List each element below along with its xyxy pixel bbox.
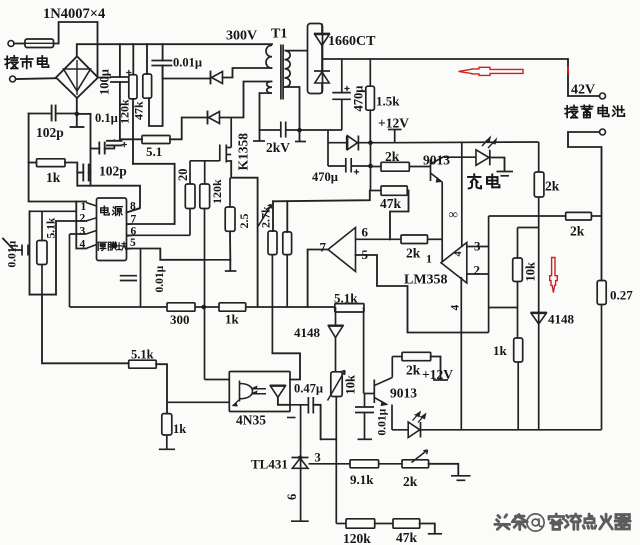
svg-text:120k: 120k bbox=[343, 531, 371, 545]
svg-text:1k: 1k bbox=[46, 170, 61, 185]
svg-text:+12V: +12V bbox=[422, 367, 453, 382]
svg-text:5.1k: 5.1k bbox=[131, 348, 154, 362]
svg-text:8: 8 bbox=[130, 201, 136, 213]
svg-text:470µ: 470µ bbox=[352, 86, 366, 112]
svg-text:6: 6 bbox=[131, 226, 137, 238]
svg-text:0.1µ: 0.1µ bbox=[95, 111, 118, 125]
svg-text:5.1k: 5.1k bbox=[46, 217, 58, 238]
svg-text:0.01µ: 0.01µ bbox=[377, 408, 389, 435]
svg-text:3: 3 bbox=[80, 226, 86, 238]
svg-text:42V: 42V bbox=[571, 83, 595, 98]
svg-text:5.1: 5.1 bbox=[146, 144, 162, 159]
svg-text:6: 6 bbox=[362, 225, 369, 240]
svg-text:2kV: 2kV bbox=[266, 140, 290, 155]
svg-text:47k: 47k bbox=[132, 101, 146, 120]
svg-text:2k: 2k bbox=[385, 149, 400, 164]
svg-text:3: 3 bbox=[315, 451, 321, 465]
svg-text:5: 5 bbox=[130, 237, 136, 249]
svg-text:20: 20 bbox=[176, 169, 190, 182]
svg-text:5.1k: 5.1k bbox=[334, 291, 358, 306]
svg-text:4N35: 4N35 bbox=[236, 413, 266, 428]
svg-text:47k: 47k bbox=[396, 530, 418, 545]
svg-text:2: 2 bbox=[80, 213, 86, 225]
svg-text:100µ: 100µ bbox=[98, 69, 112, 95]
svg-text:+12V: +12V bbox=[378, 116, 409, 131]
svg-text:2.5: 2.5 bbox=[237, 214, 251, 229]
svg-text:1k: 1k bbox=[173, 422, 186, 436]
svg-text:1k: 1k bbox=[493, 343, 508, 358]
svg-text:4: 4 bbox=[80, 239, 86, 251]
svg-text:2k: 2k bbox=[570, 224, 585, 239]
svg-text:6: 6 bbox=[285, 494, 299, 500]
svg-text:∞: ∞ bbox=[449, 207, 458, 222]
svg-text:T1: T1 bbox=[271, 27, 287, 42]
svg-text:3: 3 bbox=[474, 239, 481, 254]
svg-text:0.27: 0.27 bbox=[610, 288, 633, 303]
svg-text:102p: 102p bbox=[99, 164, 127, 179]
svg-text:2.7k: 2.7k bbox=[259, 206, 273, 228]
svg-text:9013: 9013 bbox=[390, 386, 417, 401]
svg-text:0.01µ: 0.01µ bbox=[173, 56, 202, 70]
svg-text:470µ: 470µ bbox=[312, 170, 338, 184]
svg-text:10k: 10k bbox=[524, 262, 538, 282]
svg-text:4: 4 bbox=[453, 251, 464, 257]
svg-text:47k: 47k bbox=[380, 196, 402, 211]
svg-text:1N4007×4: 1N4007×4 bbox=[43, 6, 105, 22]
svg-text:2k: 2k bbox=[403, 474, 418, 489]
svg-text:1660CT: 1660CT bbox=[328, 34, 376, 49]
svg-text:9013: 9013 bbox=[423, 153, 450, 168]
svg-text:300V: 300V bbox=[226, 29, 257, 44]
svg-text:9.1k: 9.1k bbox=[350, 472, 374, 487]
svg-text:K1358: K1358 bbox=[236, 133, 251, 171]
svg-text:4: 4 bbox=[450, 305, 462, 311]
svg-text:TL431: TL431 bbox=[251, 457, 288, 472]
svg-text:0.01µ: 0.01µ bbox=[7, 240, 19, 267]
svg-text:2k: 2k bbox=[406, 363, 421, 378]
svg-text:7: 7 bbox=[131, 214, 137, 226]
svg-text:2k: 2k bbox=[545, 179, 560, 194]
svg-text:4148: 4148 bbox=[294, 325, 321, 340]
svg-text:0.01µ: 0.01µ bbox=[154, 265, 166, 292]
svg-text:1: 1 bbox=[81, 201, 87, 213]
svg-text:0.47µ: 0.47µ bbox=[294, 382, 323, 396]
svg-text:300: 300 bbox=[170, 312, 190, 327]
svg-text:120k: 120k bbox=[210, 179, 224, 204]
svg-text:4148: 4148 bbox=[548, 312, 575, 327]
svg-text:1: 1 bbox=[426, 252, 432, 266]
svg-text:1.5k: 1.5k bbox=[376, 94, 400, 109]
svg-text:10k: 10k bbox=[344, 375, 358, 395]
svg-text:120k: 120k bbox=[118, 99, 132, 124]
svg-text:LM358: LM358 bbox=[404, 273, 448, 288]
svg-text:1k: 1k bbox=[225, 312, 240, 327]
svg-text:2: 2 bbox=[474, 263, 481, 278]
svg-text:5: 5 bbox=[362, 247, 369, 262]
svg-text:7: 7 bbox=[320, 240, 327, 255]
svg-text:2k: 2k bbox=[406, 246, 421, 261]
svg-text:102p: 102p bbox=[36, 125, 64, 140]
